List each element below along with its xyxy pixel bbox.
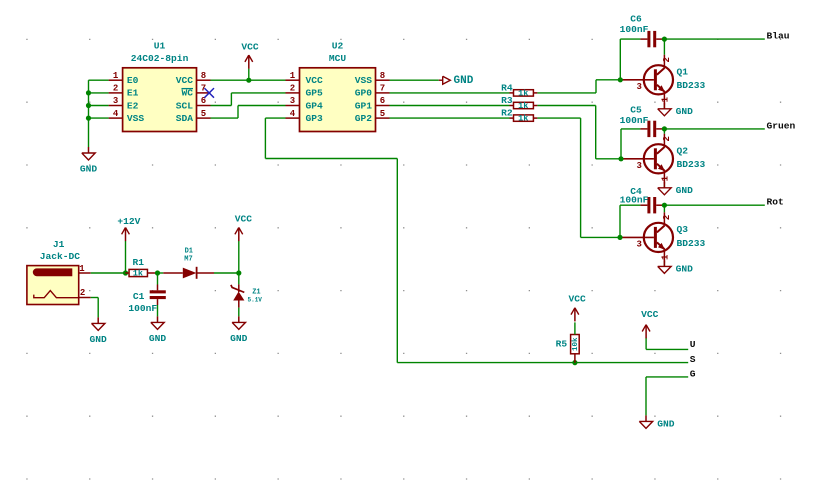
svg-text:2: 2 bbox=[662, 57, 672, 62]
svg-text:+12V: +12V bbox=[117, 216, 140, 227]
svg-text:VCC: VCC bbox=[641, 309, 659, 320]
svg-text:2: 2 bbox=[290, 84, 295, 94]
svg-text:1k: 1k bbox=[518, 101, 528, 111]
svg-text:3: 3 bbox=[113, 96, 118, 106]
svg-text:C5: C5 bbox=[630, 105, 642, 116]
svg-text:VCC: VCC bbox=[306, 75, 324, 86]
svg-text:1: 1 bbox=[290, 71, 296, 81]
svg-text:4: 4 bbox=[290, 109, 296, 119]
svg-text:Blau: Blau bbox=[767, 31, 790, 42]
svg-text:GND: GND bbox=[80, 164, 98, 175]
svg-text:R3: R3 bbox=[501, 95, 513, 106]
svg-text:GP0: GP0 bbox=[355, 88, 373, 99]
svg-text:5: 5 bbox=[380, 109, 385, 119]
svg-text:Gruen: Gruen bbox=[767, 120, 796, 131]
svg-text:2: 2 bbox=[662, 136, 672, 141]
svg-text:10k: 10k bbox=[572, 337, 580, 351]
svg-text:R5: R5 bbox=[556, 338, 568, 349]
svg-text:U2: U2 bbox=[332, 41, 344, 52]
svg-text:SDA: SDA bbox=[176, 113, 194, 124]
svg-text:VCC: VCC bbox=[569, 294, 587, 305]
svg-text:E1: E1 bbox=[127, 88, 139, 99]
svg-text:D1: D1 bbox=[185, 247, 193, 255]
svg-text:MCU: MCU bbox=[329, 53, 347, 64]
svg-text:C1: C1 bbox=[133, 291, 145, 302]
svg-text:VSS: VSS bbox=[127, 113, 145, 124]
svg-text:R2: R2 bbox=[501, 108, 513, 119]
svg-text:E0: E0 bbox=[127, 75, 139, 86]
svg-text:5.1V: 5.1V bbox=[248, 297, 263, 304]
svg-text:2: 2 bbox=[662, 215, 672, 220]
svg-text:3: 3 bbox=[636, 239, 641, 249]
svg-text:GP5: GP5 bbox=[306, 88, 324, 99]
svg-text:G: G bbox=[690, 369, 696, 380]
svg-text:Q1: Q1 bbox=[677, 66, 689, 77]
svg-text:6: 6 bbox=[380, 96, 385, 106]
svg-text:WC: WC bbox=[181, 88, 193, 99]
svg-text:GND: GND bbox=[676, 264, 694, 275]
svg-text:Q3: Q3 bbox=[677, 224, 689, 235]
svg-text:1k: 1k bbox=[518, 88, 528, 98]
svg-text:1k: 1k bbox=[518, 114, 528, 124]
svg-text:7: 7 bbox=[380, 84, 385, 94]
svg-text:GND: GND bbox=[149, 333, 167, 344]
svg-text:Q2: Q2 bbox=[677, 145, 689, 156]
svg-text:U: U bbox=[690, 339, 696, 350]
svg-text:SCL: SCL bbox=[176, 100, 194, 111]
svg-text:3: 3 bbox=[636, 82, 641, 92]
svg-text:GP3: GP3 bbox=[306, 113, 324, 124]
svg-text:GND: GND bbox=[657, 419, 675, 430]
svg-text:5: 5 bbox=[201, 109, 206, 119]
svg-text:C6: C6 bbox=[630, 13, 642, 24]
svg-text:1k: 1k bbox=[133, 269, 143, 279]
svg-text:VSS: VSS bbox=[355, 75, 373, 86]
svg-text:1: 1 bbox=[660, 254, 670, 260]
svg-text:2: 2 bbox=[113, 84, 118, 94]
svg-text:8: 8 bbox=[380, 71, 385, 81]
svg-text:Jack-DC: Jack-DC bbox=[40, 251, 81, 262]
svg-text:2: 2 bbox=[80, 288, 85, 298]
svg-text:GP2: GP2 bbox=[355, 113, 373, 124]
svg-text:GND: GND bbox=[676, 106, 694, 117]
svg-text:R1: R1 bbox=[133, 257, 145, 268]
svg-text:100nF: 100nF bbox=[620, 195, 649, 206]
svg-text:R4: R4 bbox=[501, 83, 513, 94]
svg-text:U1: U1 bbox=[154, 41, 166, 52]
svg-text:Z1: Z1 bbox=[252, 289, 260, 297]
svg-text:3: 3 bbox=[290, 96, 295, 106]
svg-text:1: 1 bbox=[660, 175, 670, 181]
svg-text:GP1: GP1 bbox=[355, 100, 373, 111]
svg-text:GND: GND bbox=[454, 75, 474, 87]
svg-text:J1: J1 bbox=[53, 239, 65, 250]
svg-text:1: 1 bbox=[113, 71, 119, 81]
svg-text:1: 1 bbox=[79, 264, 85, 274]
svg-text:VCC: VCC bbox=[235, 213, 253, 224]
svg-text:VCC: VCC bbox=[241, 41, 259, 52]
svg-text:24C02-8pin: 24C02-8pin bbox=[131, 53, 189, 64]
svg-text:100nF: 100nF bbox=[620, 115, 649, 126]
svg-text:BD233: BD233 bbox=[677, 80, 706, 91]
svg-text:VCC: VCC bbox=[176, 75, 194, 86]
svg-text:1: 1 bbox=[660, 96, 670, 102]
svg-text:3: 3 bbox=[636, 161, 641, 171]
svg-text:GND: GND bbox=[90, 334, 108, 345]
svg-text:Rot: Rot bbox=[767, 197, 784, 208]
svg-text:100nF: 100nF bbox=[620, 24, 649, 35]
svg-text:GP4: GP4 bbox=[306, 100, 324, 111]
svg-text:100nF: 100nF bbox=[128, 303, 157, 314]
svg-text:GND: GND bbox=[230, 333, 248, 344]
svg-text:M7: M7 bbox=[184, 255, 192, 263]
svg-text:S: S bbox=[690, 354, 696, 365]
svg-text:GND: GND bbox=[676, 185, 694, 196]
svg-text:E2: E2 bbox=[127, 100, 139, 111]
svg-text:4: 4 bbox=[113, 109, 119, 119]
svg-text:8: 8 bbox=[201, 71, 206, 81]
svg-text:BD233: BD233 bbox=[677, 238, 706, 249]
svg-text:BD233: BD233 bbox=[677, 159, 706, 170]
